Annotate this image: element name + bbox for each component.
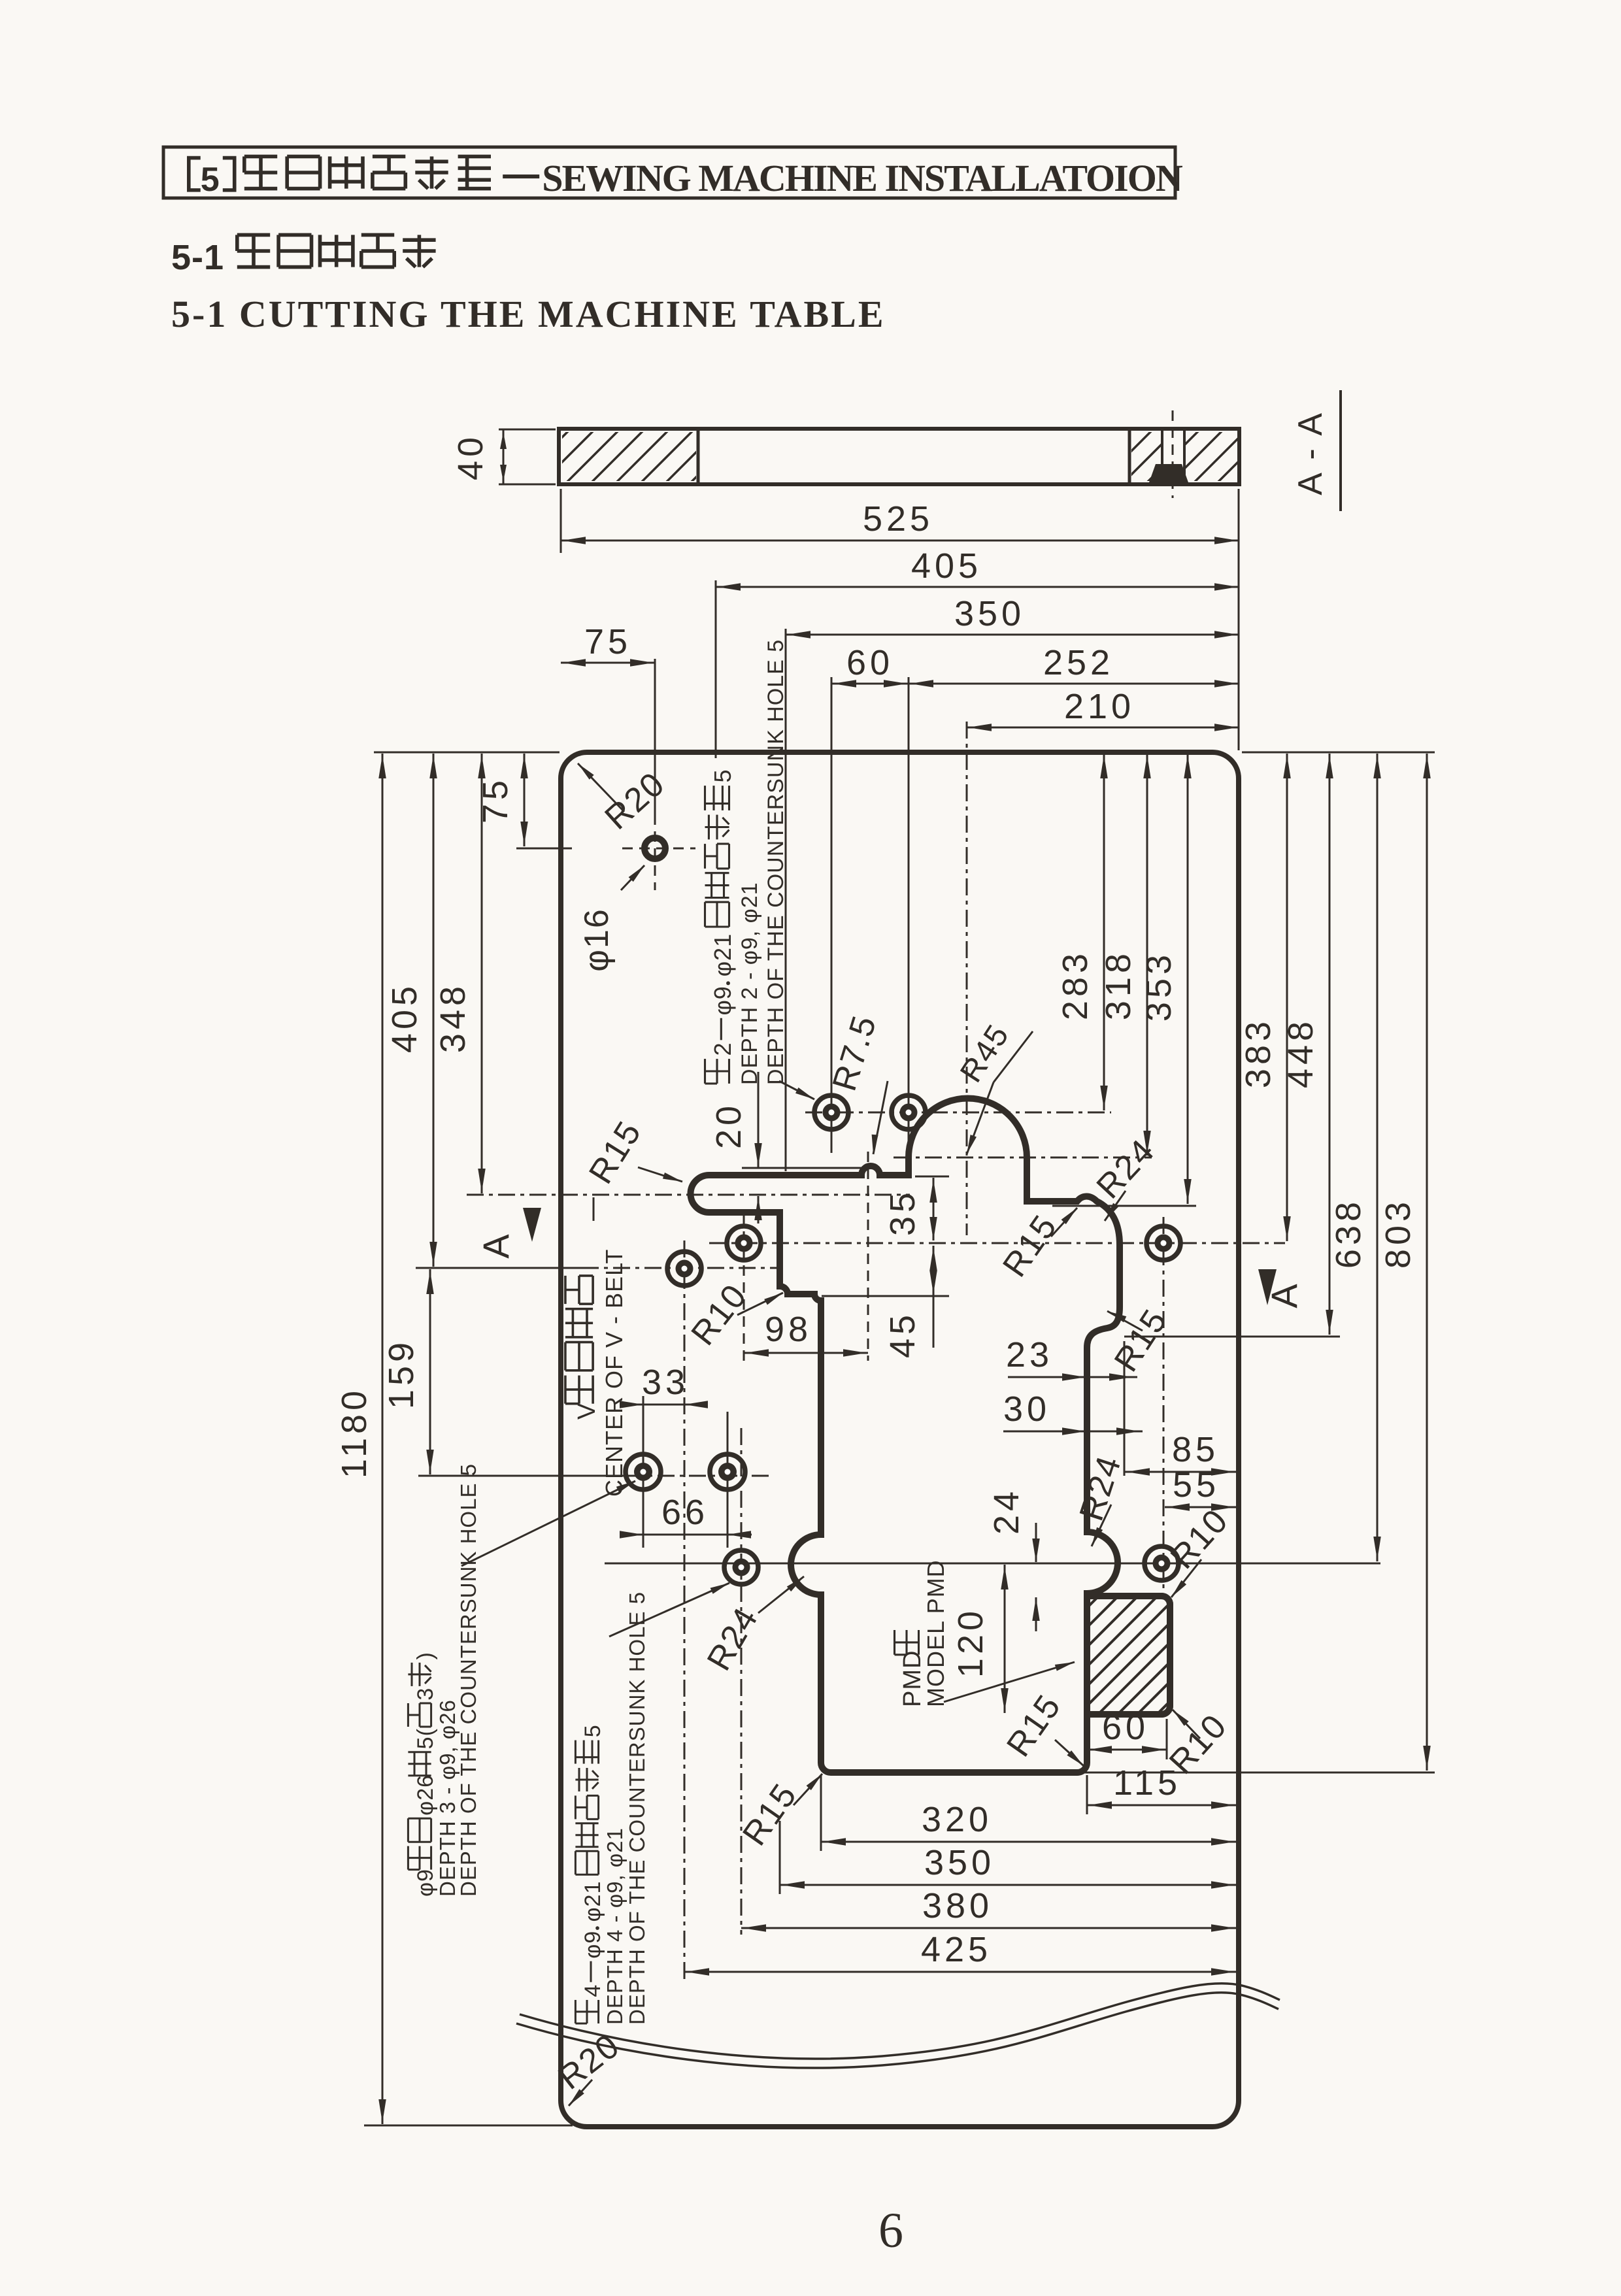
plate outline (plan view) bbox=[561, 752, 1239, 2127]
header box bbox=[163, 147, 1175, 198]
ext y1800 (35 top) bbox=[915, 1176, 949, 1178]
svg-text:120: 120 bbox=[951, 1607, 990, 1678]
dim 35 bbox=[933, 1178, 935, 1240]
svg-text:φ9: φ9 bbox=[580, 1931, 605, 1959]
leader PMD to pad bbox=[944, 1662, 1075, 1702]
svg-text:R15: R15 bbox=[999, 1688, 1069, 1763]
dome vertical centerline bbox=[966, 722, 968, 1235]
svg-text:405: 405 bbox=[911, 546, 982, 586]
ext line x1202 (350 top) bbox=[785, 629, 787, 1171]
dim 23 bbox=[1008, 1376, 1137, 1378]
extension line row h4 (405 target) bbox=[416, 1267, 582, 1269]
label R24 right bump bbox=[1092, 1505, 1111, 1546]
svg-text:5-1 CUTTING THE MACHINE TABLE: 5-1 CUTTING THE MACHINE TABLE bbox=[171, 293, 886, 335]
centerline R7.5 bump bbox=[867, 1152, 869, 1361]
dim 30 bbox=[1003, 1431, 1143, 1433]
hole h6 bbox=[724, 1550, 758, 1584]
svg-text:φ9: φ9 bbox=[413, 1869, 438, 1897]
ext x1256 for 320 bbox=[820, 1775, 822, 1851]
text block depth4 bbox=[575, 1724, 605, 2023]
break wavy line upper bbox=[520, 1984, 1280, 2059]
label R15 top right bbox=[1051, 1208, 1077, 1237]
label R15 slot cap bbox=[638, 1167, 682, 1182]
svg-text:DEPTH OF THE COUNTERSUNK HOLE: DEPTH OF THE COUNTERSUNK HOLE 5 bbox=[763, 639, 788, 1085]
svg-text:380: 380 bbox=[922, 1886, 993, 1925]
edge ext (353 target) bbox=[1052, 1205, 1196, 1207]
PMD motor pad hatched rect bbox=[1087, 1596, 1170, 1714]
section marker A right bbox=[1258, 1269, 1277, 1305]
svg-text:R15: R15 bbox=[735, 1776, 805, 1852]
svg-text:6: 6 bbox=[878, 2203, 903, 2258]
label R10 pad top-right bbox=[1171, 1559, 1201, 1597]
label R15 cutout bottom-left bbox=[794, 1774, 822, 1805]
dim 159 bbox=[429, 1269, 431, 1474]
phi16 hole bbox=[644, 838, 665, 859]
dim 33 bbox=[622, 1404, 706, 1406]
svg-text:R24: R24 bbox=[1090, 1132, 1163, 1206]
label R10 pad bottom-right bbox=[1173, 1710, 1200, 1739]
dim 803 bbox=[1426, 754, 1428, 1771]
text block v-belt center bbox=[565, 1276, 601, 1420]
hole h5 bbox=[1146, 1226, 1180, 1260]
svg-text:75: 75 bbox=[476, 776, 515, 824]
hole pair left bbox=[626, 1454, 661, 1489]
phi16 hole row ext bbox=[516, 848, 572, 850]
dim 75 top bbox=[561, 662, 655, 664]
centerline x984 pair hole left bbox=[643, 1396, 644, 1548]
ext x1785 for 60 bbox=[1166, 1719, 1168, 1759]
svg-text:5(: 5( bbox=[413, 1728, 438, 1749]
svg-text:R20: R20 bbox=[598, 765, 673, 837]
centerline x1138 (h3, 98) bbox=[743, 1214, 745, 1361]
ext line x1095 (405 top) bbox=[715, 580, 717, 758]
ext x1193 for 350 bbox=[779, 1821, 781, 1894]
svg-text:40: 40 bbox=[451, 433, 490, 480]
svg-text:60: 60 bbox=[1102, 1708, 1149, 1747]
label R45 bbox=[994, 1031, 1033, 1082]
dim 210 bbox=[967, 727, 1239, 729]
svg-text:SEWING MACHINE INSTALLATOION: SEWING MACHINE INSTALLATOION bbox=[542, 157, 1183, 199]
svg-text:30: 30 bbox=[1003, 1389, 1050, 1429]
svg-text:φ21: φ21 bbox=[580, 1881, 605, 1922]
label R15 pad bottom-left bbox=[1055, 1740, 1084, 1766]
svg-text:383: 383 bbox=[1239, 1018, 1278, 1088]
dim 24 bbox=[1035, 1523, 1037, 1562]
svg-text:60: 60 bbox=[846, 643, 894, 682]
svg-text:159: 159 bbox=[382, 1339, 421, 1409]
v-belt in groove bbox=[1149, 464, 1188, 482]
hole row h6-h7 (638 target) bbox=[605, 1563, 1380, 1565]
section-to-plate ext right bbox=[1238, 489, 1240, 750]
dim 55 bbox=[1165, 1506, 1236, 1508]
svg-text:348: 348 bbox=[433, 982, 473, 1053]
dim 380 bbox=[741, 1927, 1236, 1929]
svg-text:55: 55 bbox=[1173, 1465, 1220, 1505]
dim 85 bbox=[1125, 1471, 1236, 1473]
svg-text:R24: R24 bbox=[1073, 1451, 1129, 1525]
centerline x1047 (h4, 33/425) bbox=[684, 1240, 686, 1979]
svg-text:5: 5 bbox=[580, 1724, 605, 1737]
dim 425 bbox=[684, 1971, 1236, 1973]
leader depth4 block to h6 bbox=[609, 1583, 729, 1637]
label R15 right step bbox=[1107, 1311, 1143, 1331]
dim 60 top bbox=[831, 683, 909, 685]
svg-text:23: 23 bbox=[1006, 1335, 1053, 1374]
machine head cutout outline bbox=[691, 1099, 1171, 1773]
svg-text:350: 350 bbox=[924, 1843, 995, 1882]
svg-text:85: 85 bbox=[1172, 1430, 1219, 1469]
break wavy line lower bbox=[516, 1993, 1278, 2068]
text block PMD bbox=[895, 1630, 927, 1707]
svg-text:1180: 1180 bbox=[335, 1387, 374, 1478]
dim 448 bbox=[1329, 754, 1331, 1335]
centerline hole h1 bbox=[831, 677, 833, 1153]
hole h3 bbox=[727, 1226, 761, 1260]
svg-text:283: 283 bbox=[1056, 950, 1095, 1020]
section bar outline bbox=[559, 429, 1239, 484]
svg-text:35: 35 bbox=[883, 1189, 922, 1236]
svg-text:45: 45 bbox=[883, 1311, 922, 1358]
step ext (448 target) bbox=[1124, 1336, 1340, 1338]
dim 283 bbox=[1103, 754, 1105, 1110]
svg-text:4: 4 bbox=[580, 1984, 605, 1997]
ext y1983 (45 target) bbox=[822, 1295, 949, 1297]
svg-text:R10: R10 bbox=[1163, 1502, 1236, 1576]
svg-text:5-1: 5-1 bbox=[171, 238, 224, 277]
dim 383 bbox=[1286, 754, 1288, 1241]
section line A-A row (383 target) bbox=[709, 1242, 1285, 1244]
svg-text:252: 252 bbox=[1043, 643, 1114, 682]
svg-text:φ26: φ26 bbox=[413, 1774, 438, 1816]
svg-text:MODEL PMD: MODEL PMD bbox=[922, 1559, 949, 1707]
header title chinese bbox=[189, 158, 201, 190]
svg-text:R24: R24 bbox=[700, 1601, 766, 1677]
header dash bbox=[503, 175, 539, 178]
svg-text:3: 3 bbox=[413, 1688, 438, 1701]
label R20 top-left bbox=[578, 763, 624, 812]
dim 20 bbox=[758, 1072, 760, 1167]
svg-text:2: 2 bbox=[709, 1042, 736, 1056]
svg-text:R7.5: R7.5 bbox=[826, 1010, 884, 1095]
svg-text:320: 320 bbox=[922, 1800, 992, 1839]
dim 318 bbox=[1146, 754, 1148, 1156]
hole row h1-h2 dashdot bbox=[805, 1112, 1111, 1114]
svg-text:98: 98 bbox=[765, 1310, 812, 1349]
dim 60 bottom bbox=[1087, 1749, 1167, 1751]
ext x1720 (85/23/30) bbox=[1124, 1341, 1126, 1476]
dim 353 bbox=[1187, 754, 1189, 1204]
svg-text:5: 5 bbox=[709, 769, 736, 782]
ext x1663 for 115 bbox=[1086, 1775, 1088, 1814]
svg-text:R15: R15 bbox=[582, 1114, 649, 1191]
label R24 top right bbox=[1105, 1191, 1126, 1221]
svg-text:φ21: φ21 bbox=[709, 933, 736, 976]
svg-text:φ16: φ16 bbox=[578, 908, 616, 972]
text block depth2 (2-phi9 phi21) bbox=[705, 769, 737, 1083]
dim 350 bottom bbox=[780, 1884, 1236, 1886]
dim 525 bbox=[561, 540, 1239, 542]
centerline x1134 (h6, 380) bbox=[741, 1428, 743, 1935]
svg-text:R15: R15 bbox=[995, 1208, 1065, 1284]
svg-text:33: 33 bbox=[642, 1363, 689, 1402]
dim 405 top bbox=[716, 586, 1239, 588]
leader phi9 blind block to pair hole bbox=[461, 1481, 635, 1566]
section cut centerline bbox=[1172, 410, 1174, 498]
svg-text:638: 638 bbox=[1329, 1198, 1368, 1269]
ext y1787 (20 target) bbox=[742, 1167, 866, 1169]
dim 45 bbox=[933, 1246, 935, 1348]
v-belt hole row (159 bottom) bbox=[418, 1475, 626, 1477]
section marker A left bbox=[523, 1208, 541, 1242]
dim 638 bbox=[1377, 754, 1379, 1561]
svg-text:CENTER OF V - BELT: CENTER OF V - BELT bbox=[601, 1249, 627, 1497]
svg-text:405: 405 bbox=[385, 982, 424, 1053]
dim 350 top bbox=[786, 634, 1239, 636]
cutout bottom ext (803 target) bbox=[1080, 1772, 1435, 1774]
svg-text:803: 803 bbox=[1379, 1198, 1418, 1269]
svg-text:R45: R45 bbox=[954, 1018, 1016, 1089]
hole h1 bbox=[814, 1095, 848, 1129]
svg-text:A: A bbox=[475, 1230, 516, 1258]
svg-text:353: 353 bbox=[1139, 951, 1178, 1022]
hole h2 bbox=[892, 1095, 926, 1129]
svg-text:V: V bbox=[573, 1403, 601, 1420]
label R24 left notch bbox=[758, 1576, 804, 1613]
hole h4 bbox=[667, 1252, 701, 1286]
extension line plate bottom-left bbox=[364, 2125, 573, 2127]
phi16 vertical centerline bbox=[654, 659, 656, 814]
leader v-belt tick bbox=[593, 1197, 595, 1221]
svg-text:5: 5 bbox=[201, 161, 220, 199]
dim 115 bbox=[1087, 1805, 1236, 1806]
dim 40 bbox=[499, 429, 556, 431]
svg-text:318: 318 bbox=[1099, 950, 1138, 1020]
svg-text:A - A: A - A bbox=[1292, 410, 1329, 495]
dim 405 left bbox=[433, 754, 435, 1267]
ext x1663 for 60 bbox=[1086, 1719, 1088, 1759]
centerline x1113 pair hole right bbox=[727, 1412, 729, 1548]
text block phi9 blind holes bbox=[408, 1652, 438, 1897]
dim 252 bbox=[909, 683, 1239, 685]
slot centerline (348 target) bbox=[467, 1194, 910, 1196]
centerline hole h2 bbox=[908, 677, 910, 1149]
svg-text:DEPTH 4 - φ9, φ21: DEPTH 4 - φ9, φ21 bbox=[603, 1827, 627, 2025]
hole h7 bbox=[1145, 1546, 1178, 1580]
label phi16 bbox=[621, 865, 644, 890]
label R7.5 bbox=[873, 1081, 888, 1154]
svg-text:DEPTH OF THE COUNTERSUNK HOLE: DEPTH OF THE COUNTERSUNK HOLE 5 bbox=[625, 1591, 649, 2025]
svg-text:): ) bbox=[413, 1652, 438, 1659]
dim 348 bbox=[481, 754, 483, 1193]
centerline x1780 (h5,h7,55) bbox=[1163, 1217, 1165, 1588]
svg-text:448: 448 bbox=[1281, 1018, 1320, 1088]
dim 66 bbox=[620, 1534, 752, 1536]
plate top ext right bbox=[1242, 752, 1435, 754]
svg-text:350: 350 bbox=[954, 594, 1025, 633]
dome horizontal centerline (318 target) bbox=[894, 1157, 1152, 1159]
svg-text:425: 425 bbox=[921, 1930, 992, 1969]
section-to-dim ext left bbox=[560, 489, 562, 553]
svg-text:115: 115 bbox=[1113, 1763, 1181, 1803]
svg-text:24: 24 bbox=[987, 1488, 1026, 1535]
dim 75 left bbox=[524, 754, 526, 846]
svg-text:20: 20 bbox=[709, 1102, 748, 1149]
dim 320 bbox=[821, 1841, 1236, 1843]
dim 98 bbox=[744, 1352, 868, 1354]
extension line plate top-left bbox=[374, 752, 560, 754]
dim 1180 bbox=[382, 754, 384, 2124]
label R20 bottom-left bbox=[569, 2080, 592, 2106]
dim 120 bbox=[1004, 1565, 1006, 1713]
svg-text:525: 525 bbox=[863, 499, 933, 539]
svg-text:210: 210 bbox=[1064, 687, 1135, 726]
svg-text:φ9: φ9 bbox=[709, 986, 736, 1015]
section right hatch blocks bbox=[1048, 425, 1393, 487]
svg-text:DEPTH OF THE COUNTERSUNK HOLE: DEPTH OF THE COUNTERSUNK HOLE 5 bbox=[456, 1463, 480, 1897]
leader depth2 block to h1 bbox=[779, 1081, 814, 1099]
label R10 left step bbox=[737, 1293, 783, 1315]
svg-text:A: A bbox=[1263, 1280, 1305, 1308]
svg-text:66: 66 bbox=[661, 1493, 709, 1532]
hole pair right bbox=[710, 1454, 745, 1489]
svg-text:75: 75 bbox=[584, 622, 631, 661]
svg-text:DEPTH 2 - φ9, φ21: DEPTH 2 - φ9, φ21 bbox=[737, 882, 762, 1085]
